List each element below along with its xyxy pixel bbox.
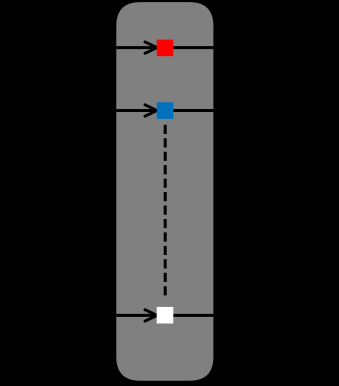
arrowhead row 2 [145,105,157,116]
wire row 3 [116,314,213,317]
wire row 1 [116,46,213,49]
node red square [157,40,174,57]
arrowhead row 1 [145,42,157,53]
node blue square [157,102,174,119]
arrowhead row 3 [145,310,157,321]
node white square [157,307,174,324]
capsule body (gray rounded block) [116,2,213,381]
dashed continuation line [164,125,167,300]
wire row 2 [116,109,213,112]
